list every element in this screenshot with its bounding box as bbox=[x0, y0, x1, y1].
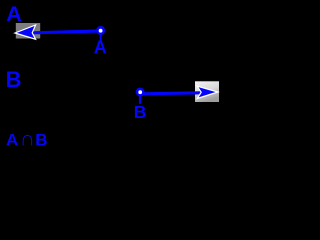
svg-text:B: B bbox=[35, 131, 47, 150]
svg-text:B: B bbox=[134, 102, 147, 122]
svg-text:∩: ∩ bbox=[20, 128, 35, 151]
svg-text:A: A bbox=[6, 131, 18, 150]
svg-text:B: B bbox=[6, 67, 22, 92]
svg-text:A: A bbox=[94, 38, 107, 58]
svg-text:A: A bbox=[6, 2, 22, 26]
